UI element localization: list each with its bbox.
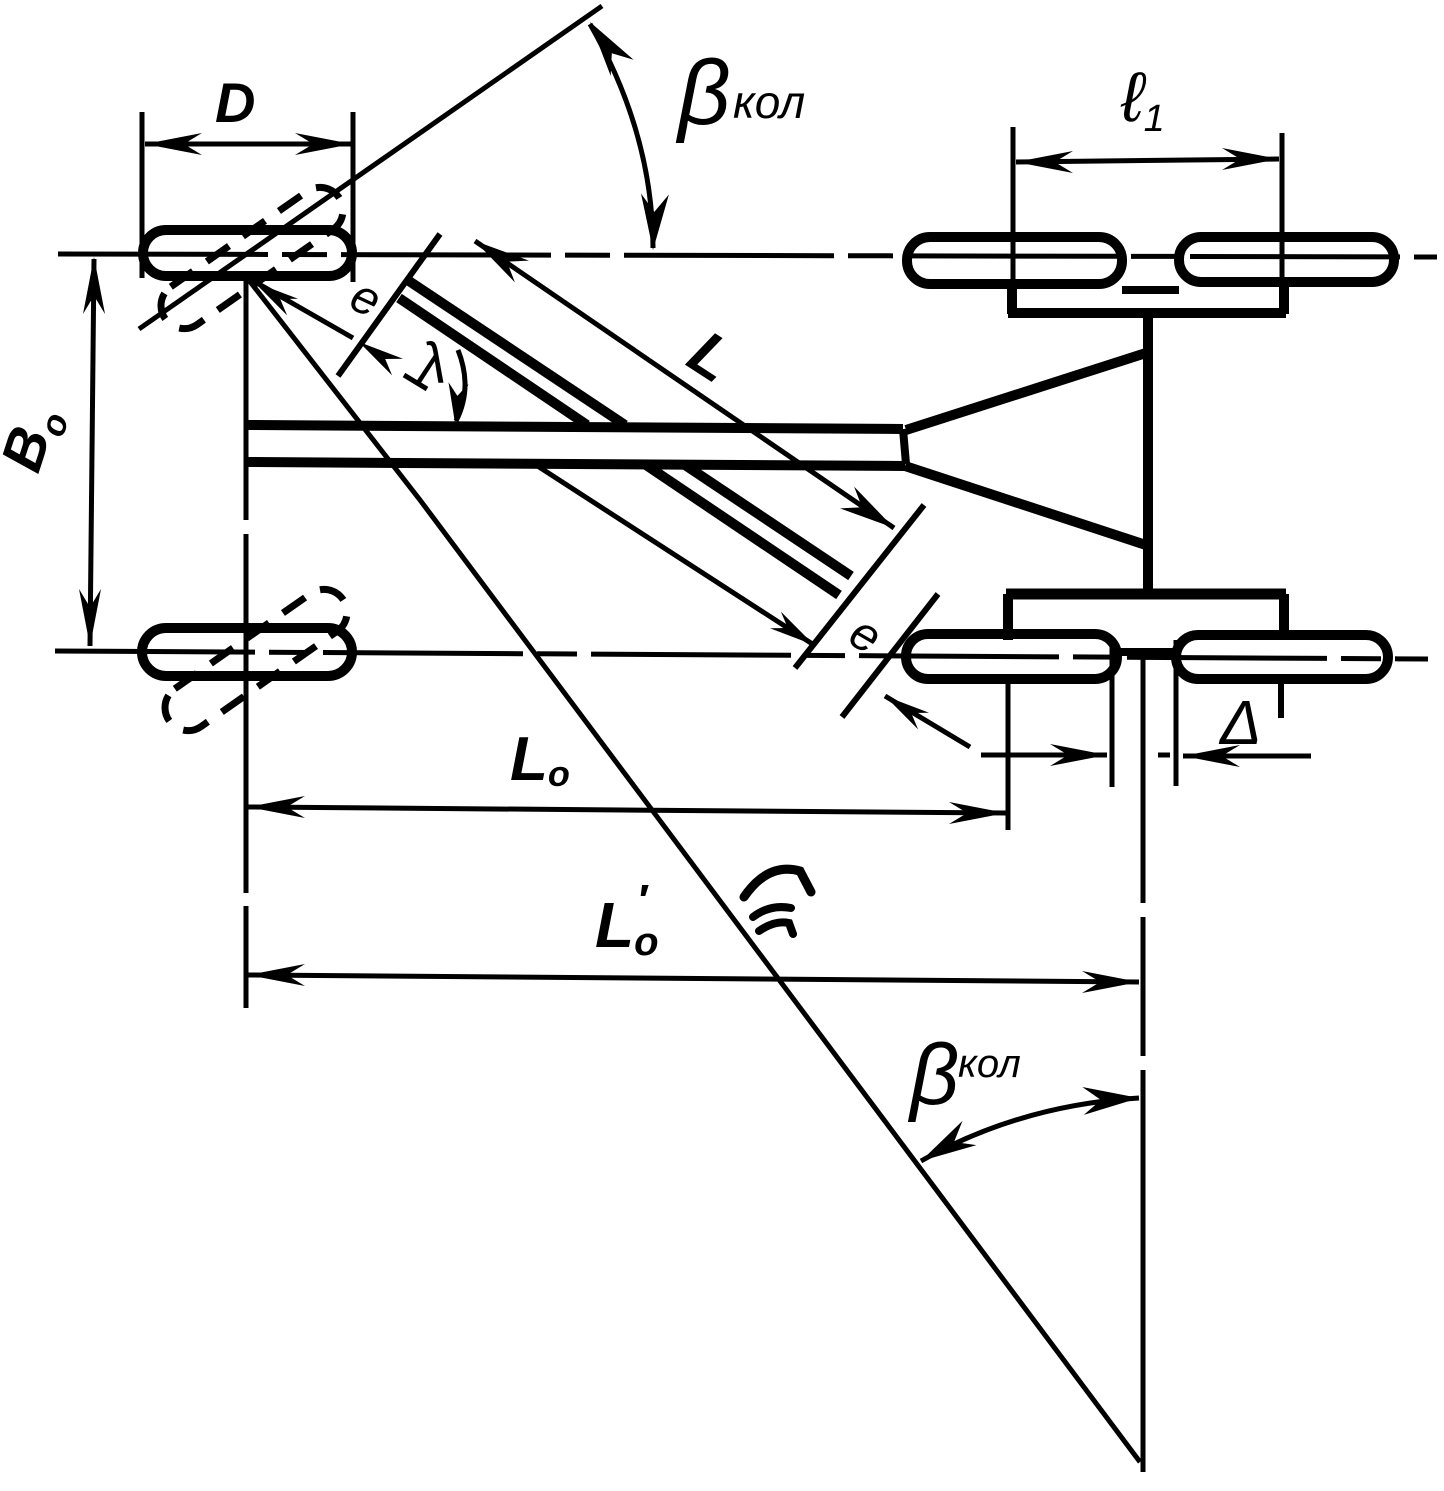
line Gp (polyline, slight bend) bbox=[248, 279, 1140, 1462]
frame taper lower bbox=[905, 466, 1146, 545]
front axle housing bbox=[1007, 283, 1017, 314]
frame taper upper bbox=[906, 353, 1146, 430]
angle beta-kol top arc bbox=[590, 24, 653, 248]
rear axle centerline bbox=[55, 651, 1428, 659]
label Gp bbox=[744, 869, 811, 897]
tick at drawbar far end 1 bbox=[795, 505, 924, 668]
dimension B0 bbox=[90, 259, 94, 646]
angle beta-kol bottom arc bbox=[921, 1098, 1139, 1161]
tick at drawbar pivot end bbox=[338, 234, 440, 376]
e dimension arrow far end bbox=[885, 696, 970, 747]
svg-text:β: β bbox=[907, 1027, 959, 1123]
angle lambda arc bbox=[456, 350, 465, 421]
wheel front-left turned (dashed) bbox=[152, 178, 352, 337]
extension line from front-left wheel center bbox=[244, 272, 249, 520]
svg-text:кол: кол bbox=[958, 1042, 1021, 1086]
wheel front-right inner bbox=[907, 237, 1122, 284]
rear axle housing bbox=[1006, 589, 1286, 600]
delta extension lines bbox=[1110, 640, 1115, 787]
L0 right extension line bbox=[1006, 680, 1011, 830]
wheel front-right outer bbox=[1179, 237, 1394, 282]
wheel rear-right inner bbox=[906, 634, 1117, 679]
dimension delta bbox=[981, 753, 1107, 758]
dimension l1 bbox=[1011, 127, 1016, 291]
wheel rear-left solid bbox=[142, 628, 352, 676]
svg-text:Δ: Δ bbox=[1218, 689, 1262, 758]
svg-text:D: D bbox=[215, 71, 255, 134]
frame vertical stub bbox=[1143, 316, 1153, 594]
dimension L along drawbar bbox=[475, 241, 894, 528]
steering axis line bbox=[139, 6, 602, 329]
svg-text:кол: кол bbox=[733, 76, 805, 128]
dimension L0 prime bbox=[248, 975, 1139, 982]
svg-text:λ: λ bbox=[415, 331, 447, 396]
drawbar turned edge upper bbox=[406, 279, 625, 425]
drawbar axis with e offset arrows bbox=[250, 279, 353, 338]
wheel rear-left turned (dashed) bbox=[156, 580, 356, 739]
wheel rear-right outer bbox=[1176, 635, 1388, 679]
wheel front-left solid bbox=[143, 230, 352, 276]
dimension L0 bbox=[248, 807, 1006, 813]
tick at drawbar far end 2 bbox=[842, 594, 938, 717]
front axle centerline bbox=[58, 254, 1437, 257]
dimension D bbox=[140, 112, 145, 278]
drawbar turned edge lower bbox=[399, 298, 587, 425]
svg-text:β: β bbox=[675, 42, 731, 144]
drawbar pole (straight position) bbox=[246, 425, 903, 429]
rear frame centerline vertical bbox=[1141, 658, 1146, 903]
